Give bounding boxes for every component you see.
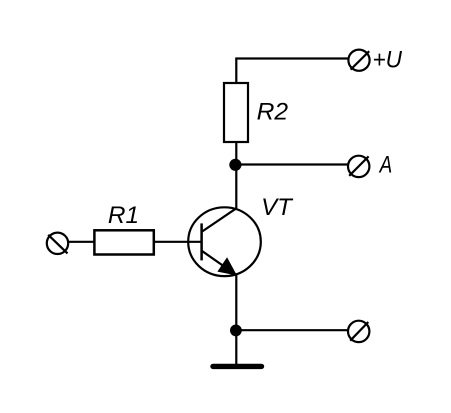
svg-text:R2: R2	[257, 99, 289, 126]
terminal +U	[348, 50, 369, 71]
wire emitter node to output terminal	[236, 329, 348, 331]
svg-text:A: A	[378, 152, 392, 179]
resistor R2	[224, 83, 248, 142]
terminal output (bottom right)	[348, 321, 369, 342]
wire R2 bottom to transistor collector	[235, 142, 237, 209]
terminal input (left)	[47, 233, 68, 254]
node emitter junction dot	[230, 325, 242, 337]
ground	[213, 364, 262, 369]
transistor VT	[188, 207, 261, 276]
wire input terminal to R1	[68, 241, 94, 243]
wire emitter down to ground	[235, 275, 237, 364]
terminal A	[348, 156, 369, 177]
svg-text:VT: VT	[261, 194, 294, 221]
svg-text:R1: R1	[108, 202, 139, 229]
wire R1 to transistor base	[154, 241, 202, 243]
node A junction dot	[229, 159, 241, 171]
resistor R1	[94, 230, 153, 254]
wire top rail from R2 top to +U terminal	[236, 59, 347, 84]
svg-text:+U: +U	[373, 46, 403, 73]
wire node A to terminal A	[236, 163, 348, 165]
